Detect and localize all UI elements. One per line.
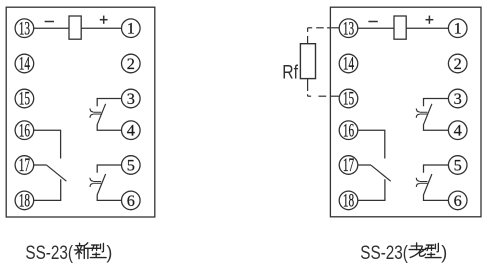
svg-text:SS-23(: SS-23(: [360, 243, 408, 264]
svg-text:2: 2: [454, 54, 462, 73]
svg-text:1: 1: [127, 19, 135, 38]
svg-text:15: 15: [343, 90, 354, 110]
svg-text:2: 2: [127, 54, 135, 73]
svg-text:18: 18: [343, 192, 354, 212]
svg-text:6: 6: [454, 191, 462, 210]
svg-text:4: 4: [454, 121, 462, 140]
svg-text:15: 15: [19, 90, 30, 110]
svg-text:SS-23(: SS-23(: [25, 243, 73, 264]
svg-text:18: 18: [19, 192, 30, 212]
svg-text:6: 6: [127, 191, 135, 210]
svg-text:16: 16: [343, 121, 354, 141]
svg-text:14: 14: [343, 55, 354, 75]
svg-text:): ): [106, 242, 112, 262]
svg-text:13: 13: [19, 19, 30, 39]
svg-text:13: 13: [343, 19, 354, 39]
svg-text:3: 3: [454, 89, 462, 108]
svg-text:17: 17: [343, 156, 354, 176]
svg-text:5: 5: [127, 155, 135, 174]
svg-text:1: 1: [454, 19, 462, 38]
svg-text:17: 17: [19, 156, 30, 176]
svg-text:16: 16: [19, 121, 30, 141]
svg-text:14: 14: [19, 55, 30, 75]
svg-text:5: 5: [454, 155, 462, 174]
svg-text:4: 4: [127, 121, 135, 140]
svg-text:Rf: Rf: [282, 61, 298, 83]
svg-text:): ): [441, 242, 447, 262]
svg-text:3: 3: [127, 89, 135, 108]
